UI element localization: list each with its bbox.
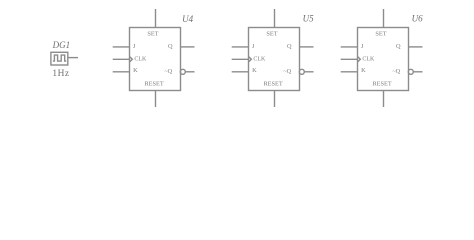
svg-text:DG1: DG1 xyxy=(52,40,71,50)
svg-text:K: K xyxy=(361,67,366,74)
svg-text:RESET: RESET xyxy=(144,80,163,87)
clock chevron xyxy=(130,57,133,62)
clock source DG1 xyxy=(51,40,78,79)
svg-text:Q: Q xyxy=(287,43,292,50)
JK flip-flop U6 xyxy=(341,9,423,107)
square wave symbol xyxy=(53,55,66,61)
J pin wire xyxy=(232,46,249,48)
~Q pin wire xyxy=(185,71,194,73)
svg-text:SET: SET xyxy=(147,31,158,38)
body rectangle xyxy=(130,28,181,91)
svg-text:Q: Q xyxy=(168,43,173,50)
SET pin wire xyxy=(383,9,385,28)
clock body box xyxy=(51,52,68,65)
output wire xyxy=(68,57,78,59)
~Q pin wire xyxy=(413,71,422,73)
svg-text:CLK: CLK xyxy=(362,56,375,62)
svg-text:Q: Q xyxy=(396,43,401,50)
~Q bubble xyxy=(299,69,304,74)
svg-text:CLK: CLK xyxy=(253,56,266,62)
svg-text:RESET: RESET xyxy=(372,80,391,87)
K pin wire xyxy=(341,71,358,73)
svg-text:U6: U6 xyxy=(412,14,423,24)
svg-text:RESET: RESET xyxy=(263,80,282,87)
CLK pin wire xyxy=(341,58,358,60)
svg-text:K: K xyxy=(133,67,138,74)
svg-text:J: J xyxy=(252,43,255,50)
Q pin wire xyxy=(181,46,195,48)
svg-text:~Q: ~Q xyxy=(164,68,172,75)
clock chevron xyxy=(358,57,361,62)
~Q bubble xyxy=(180,69,185,74)
RESET pin wire xyxy=(383,91,385,108)
svg-text:~Q: ~Q xyxy=(392,68,400,75)
RESET pin wire xyxy=(155,91,157,108)
~Q pin wire xyxy=(304,71,313,73)
J pin wire xyxy=(113,46,130,48)
Q pin wire xyxy=(409,46,423,48)
svg-text:1Hz: 1Hz xyxy=(52,69,69,79)
svg-text:J: J xyxy=(133,43,136,50)
SET pin wire xyxy=(274,9,276,28)
CLK pin wire xyxy=(113,58,130,60)
svg-text:SET: SET xyxy=(266,31,277,38)
svg-text:U5: U5 xyxy=(303,14,314,24)
JK flip-flop U5 xyxy=(232,9,314,107)
svg-text:~Q: ~Q xyxy=(283,68,291,75)
K pin wire xyxy=(232,71,249,73)
CLK pin wire xyxy=(232,58,249,60)
svg-text:SET: SET xyxy=(375,31,386,38)
svg-text:J: J xyxy=(361,43,364,50)
SET pin wire xyxy=(155,9,157,28)
svg-text:U4: U4 xyxy=(182,14,193,24)
JK flip-flop U4 xyxy=(113,9,195,107)
RESET pin wire xyxy=(274,91,276,108)
clock chevron xyxy=(249,57,252,62)
~Q bubble xyxy=(408,69,413,74)
svg-text:CLK: CLK xyxy=(134,56,147,62)
body rectangle xyxy=(358,28,409,91)
K pin wire xyxy=(113,71,130,73)
body rectangle xyxy=(249,28,300,91)
J pin wire xyxy=(341,46,358,48)
Q pin wire xyxy=(300,46,314,48)
svg-text:K: K xyxy=(252,67,257,74)
